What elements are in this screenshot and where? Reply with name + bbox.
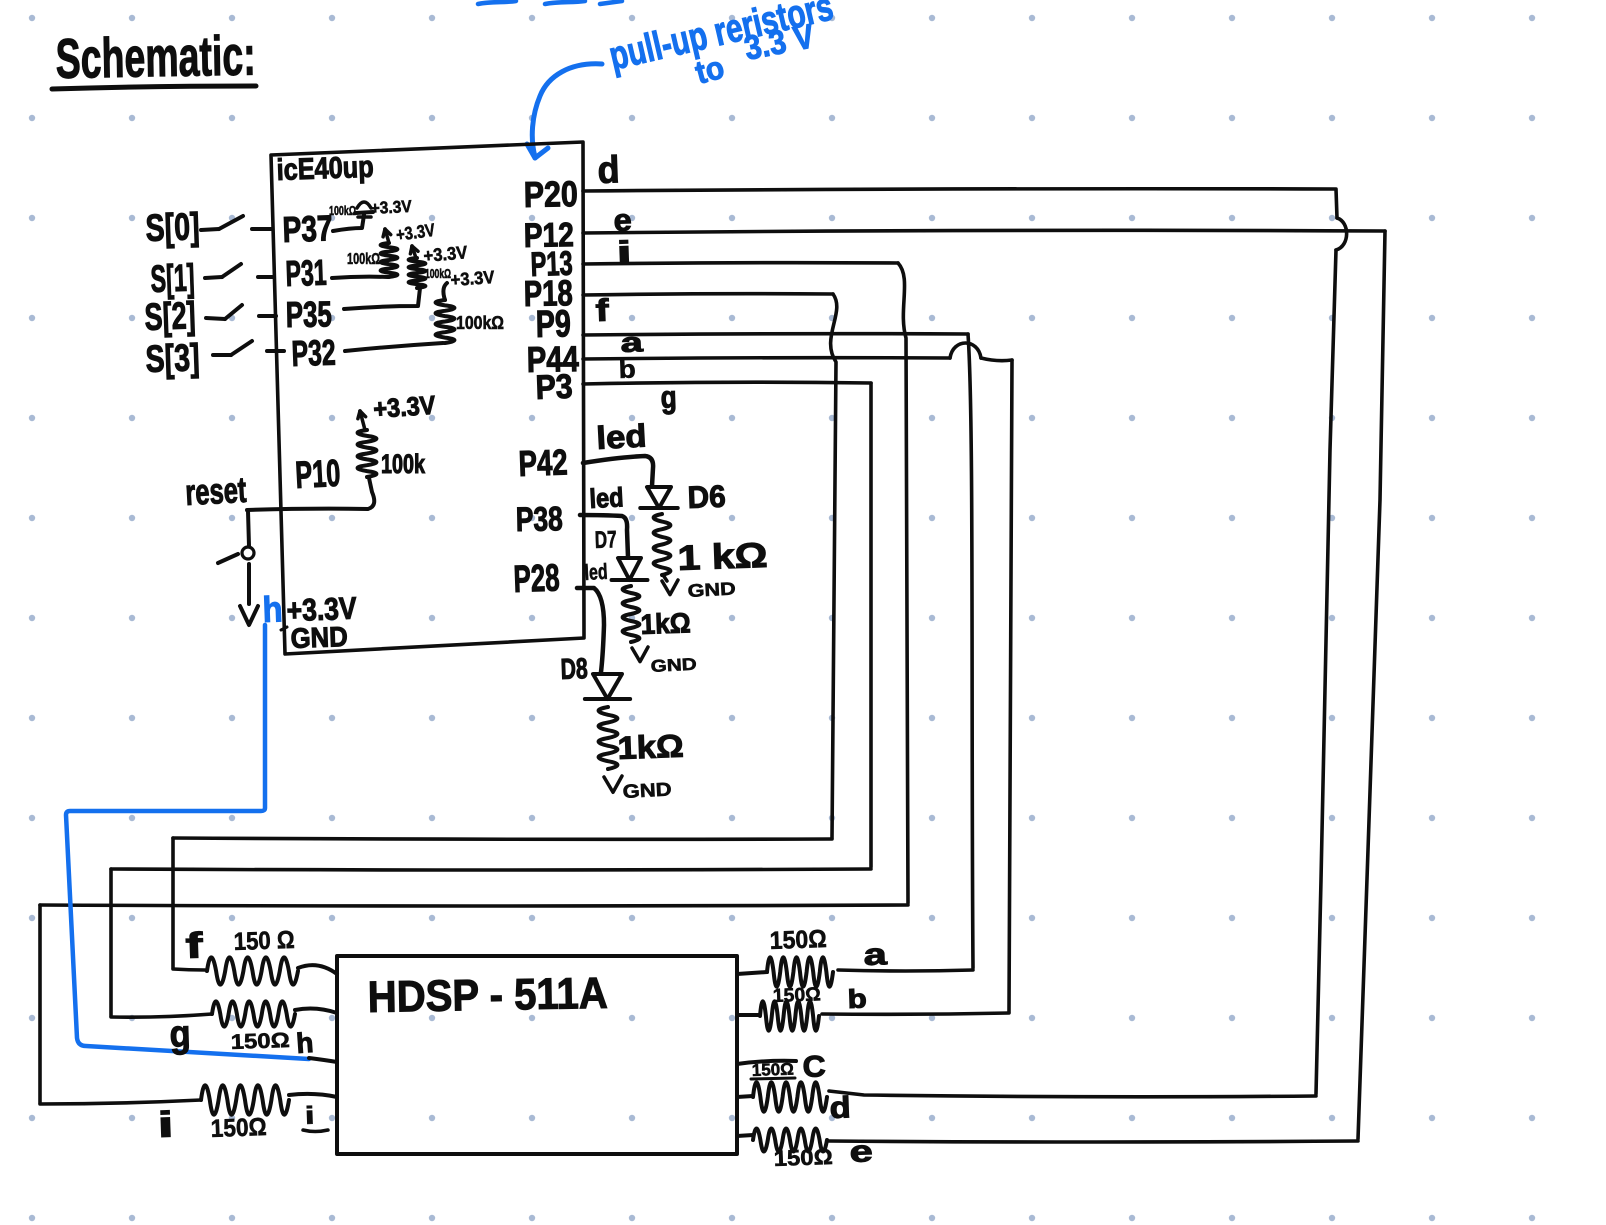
svg-text:i: i <box>304 1102 315 1130</box>
annotation (blue): pull-up reristors to 3.3 V <box>605 0 837 91</box>
stray blue ink at top edge <box>478 1 516 4</box>
svg-text:D7: D7 <box>594 526 617 554</box>
wire i resistor to HDSP <box>289 1094 337 1097</box>
svg-text:f: f <box>185 924 205 966</box>
pull-up symbol R1 (+3.3V) <box>356 212 373 213</box>
resistor 150 (d) <box>753 1082 827 1111</box>
resistor 150 (e) <box>753 1128 827 1151</box>
svg-text:d: d <box>597 149 620 192</box>
svg-text:led: led <box>595 417 647 456</box>
wire f resistor to HDSP <box>298 965 337 974</box>
svg-text:P32: P32 <box>291 331 336 374</box>
svg-text:100k: 100k <box>381 449 426 479</box>
svg-text:100kΩ: 100kΩ <box>329 203 356 218</box>
svg-text:GND: GND <box>687 579 736 601</box>
svg-text:P38: P38 <box>515 500 563 539</box>
wire P31 to pull-up R2 <box>332 277 388 278</box>
wire P42 to D6 <box>583 456 653 486</box>
svg-text:b: b <box>847 983 867 1014</box>
wire net g: P3 to HDSP g resistor <box>583 382 871 384</box>
wire switch to GND <box>247 564 251 604</box>
pull-up resistor R4 100k <box>436 300 455 343</box>
resistor 1k (D6) <box>654 514 671 575</box>
svg-text:S[0]: S[0] <box>145 206 200 250</box>
ground symbol (D7) <box>632 647 648 662</box>
svg-text:S[3]: S[3] <box>145 337 200 381</box>
svg-text:1kΩ: 1kΩ <box>640 607 691 640</box>
wire S2 to P35 <box>259 314 276 318</box>
IC U1 box (icE40up) <box>271 142 584 654</box>
wire reset net to P10 resistor <box>247 478 374 510</box>
resistor 150 (g) <box>212 1001 295 1026</box>
pull-up resistor R2 100k <box>381 243 398 277</box>
wire net e: P12 to HDSP e resistor <box>583 230 1385 233</box>
svg-text:+3.3V: +3.3V <box>372 390 437 424</box>
svg-text:D8: D8 <box>560 653 588 686</box>
wire S0 to P37 <box>252 227 272 231</box>
wire S1 to P31 <box>258 275 273 279</box>
reset switch contact circle <box>242 547 254 559</box>
svg-text:S[1]: S[1] <box>150 257 195 301</box>
svg-text:150Ω: 150Ω <box>769 925 827 955</box>
svg-text:C: C <box>802 1050 826 1084</box>
annotation arrow (blue) pointing to IC top <box>532 64 602 157</box>
resistor 150 (f) <box>207 957 298 984</box>
svg-text:100kΩ: 100kΩ <box>347 251 380 268</box>
wire net h (blue) from GND area to HDSP <box>66 625 309 1059</box>
svg-text:150Ω: 150Ω <box>210 1113 267 1143</box>
svg-text:e: e <box>849 1135 873 1169</box>
svg-text:100kΩ: 100kΩ <box>456 313 504 333</box>
svg-text:P42: P42 <box>518 441 568 484</box>
LED D8 <box>593 674 622 699</box>
+3.3V arrow R2 <box>385 229 389 243</box>
svg-text:Schematic:: Schematic: <box>55 24 256 90</box>
svg-text:reset: reset <box>184 469 247 513</box>
ground symbol (reset) <box>240 606 258 625</box>
wire HDSP to b resistor <box>737 1013 760 1017</box>
svg-text:+3.3V: +3.3V <box>370 197 413 218</box>
wire net a: P9 to HDSP a resistor <box>583 334 968 335</box>
svg-text:led: led <box>589 482 625 514</box>
svg-text:P20: P20 <box>523 173 578 215</box>
ground symbol (D6) <box>662 580 678 595</box>
svg-text:P31: P31 <box>285 252 327 294</box>
wire P32 to pull-up R4 <box>345 343 443 351</box>
resistor 1k (D7) <box>623 586 640 642</box>
svg-text:P28: P28 <box>513 557 560 601</box>
wire net i: P13 to HDSP i resistor <box>583 263 898 264</box>
wire net f: P18 to HDSP f resistor <box>583 294 833 295</box>
wire HDSP to d resistor <box>737 1096 753 1097</box>
resistor 150 (b) <box>760 1001 819 1030</box>
switch S0 symbol <box>201 229 219 230</box>
svg-text:led: led <box>584 559 608 585</box>
svg-text:150Ω: 150Ω <box>773 1144 833 1171</box>
svg-text:1kΩ: 1kΩ <box>617 728 684 766</box>
svg-text:150Ω: 150Ω <box>230 1029 290 1054</box>
svg-text:a: a <box>620 327 644 358</box>
wire reset down to switch <box>248 511 249 546</box>
svg-text:HDSP - 511A: HDSP - 511A <box>367 969 608 1022</box>
svg-text:D6: D6 <box>687 479 726 515</box>
wire P35 to pull-up R3 <box>344 288 420 309</box>
svg-text:P37: P37 <box>282 207 333 250</box>
wire net b: P44 to HDSP b resistor <box>583 358 950 359</box>
svg-text:1 kΩ: 1 kΩ <box>677 536 768 578</box>
resistor 1k (D8) <box>599 707 618 769</box>
svg-text:h: h <box>295 1027 314 1059</box>
svg-text:g: g <box>660 379 677 415</box>
ground symbol (D8) <box>604 776 622 792</box>
wire D6 resistor to GND <box>663 575 667 581</box>
IC U2 box (HDSP-511A) <box>337 956 737 1154</box>
wire net d: P20 to HDSP d resistor <box>583 189 1337 218</box>
svg-text:P35: P35 <box>285 293 332 335</box>
svg-text:S[2]: S[2] <box>144 295 196 339</box>
resistor 150 (a) <box>767 957 833 986</box>
LED D7 <box>618 558 641 580</box>
wire HDSP to a resistor <box>737 972 767 974</box>
wire HDSP c stub <box>737 1061 796 1064</box>
+3.3V hook R4 <box>443 283 447 300</box>
svg-text:100kΩ: 100kΩ <box>425 266 451 281</box>
LED D6 <box>647 487 671 508</box>
svg-text:P10: P10 <box>294 453 341 497</box>
svg-text:GND: GND <box>622 779 672 803</box>
wire S3 to P32 <box>267 349 284 353</box>
wire P28 to D8 <box>577 588 604 672</box>
svg-text:+3.3V: +3.3V <box>423 242 469 266</box>
pull-up resistor R3 100k <box>409 258 426 288</box>
+3.3V arrow R5 <box>360 411 365 430</box>
svg-text:f: f <box>595 293 610 328</box>
svg-text:P3: P3 <box>535 368 573 407</box>
switch S2 symbol <box>206 318 225 319</box>
switch S1 symbol <box>205 277 222 278</box>
svg-text:d: d <box>829 1091 851 1125</box>
svg-text:150 Ω: 150 Ω <box>233 926 295 956</box>
svg-text:GND: GND <box>290 621 348 654</box>
wire HDSP to e resistor <box>737 1135 753 1136</box>
wire g resistor to HDSP <box>295 1009 337 1013</box>
svg-text:GND: GND <box>650 655 697 676</box>
reset switch lever <box>218 554 238 563</box>
wire P38 to D7 <box>580 515 628 557</box>
wire P37 to pull-up R1 <box>333 215 364 231</box>
svg-text:a: a <box>863 938 888 972</box>
svg-text:icE40up: icE40up <box>276 151 374 187</box>
pull-up resistor R5 100k on P10 <box>358 430 377 477</box>
wire h into HDSP <box>309 1058 337 1062</box>
switch S3 symbol <box>213 353 231 357</box>
svg-text:i: i <box>157 1103 174 1145</box>
svg-text:+3.3V: +3.3V <box>450 267 495 290</box>
svg-text:g: g <box>169 1013 191 1056</box>
resistor 150 (i) <box>201 1085 289 1114</box>
+3.3V arrow R3 <box>412 246 416 258</box>
